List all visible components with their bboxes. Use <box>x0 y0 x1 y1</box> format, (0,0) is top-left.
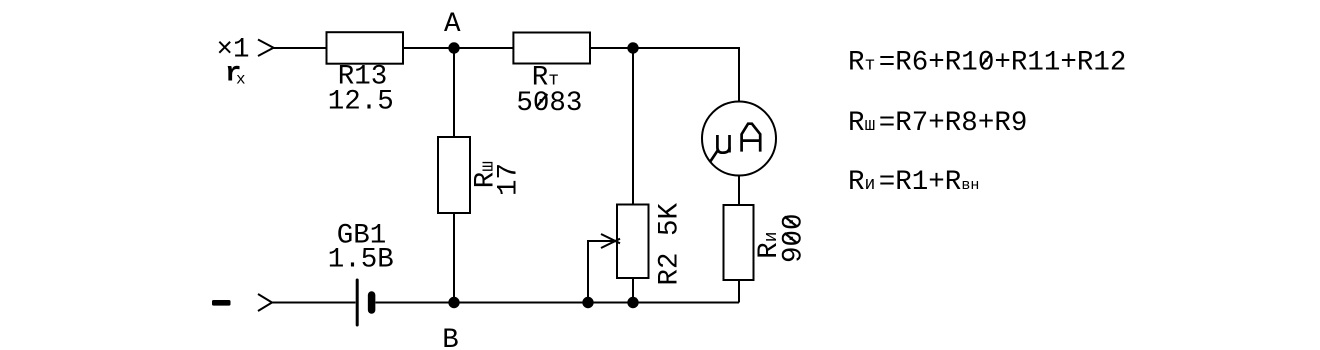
svg-text:Rт=R6+R10+R11+R12: Rт=R6+R10+R11+R12 <box>848 47 1126 78</box>
svg-text:B: B <box>442 325 459 350</box>
svg-text:R2 5K: R2 5K <box>654 202 685 285</box>
svg-text:17: 17 <box>494 163 525 196</box>
svg-text:x: x <box>236 71 246 89</box>
svg-text:12.5: 12.5 <box>328 87 394 118</box>
svg-text:A: A <box>444 9 461 40</box>
svg-text:900: 900 <box>779 213 810 263</box>
svg-text:5083: 5083 <box>516 88 582 119</box>
svg-text:1.5В: 1.5В <box>328 245 394 276</box>
